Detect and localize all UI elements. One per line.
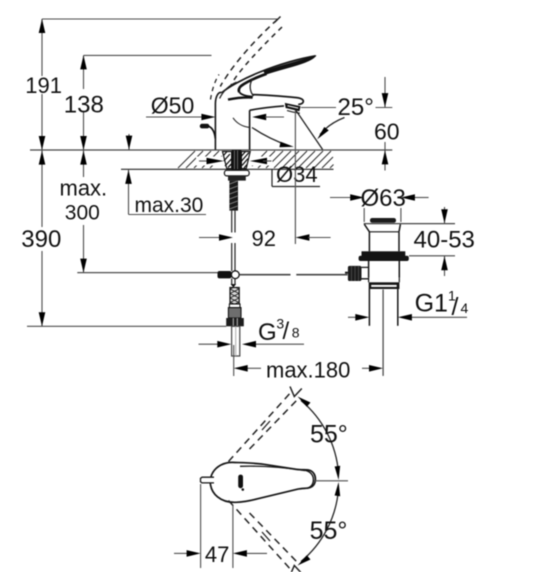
threaded stud — [229, 181, 238, 211]
Ø34 arrows at deck hole — [196, 157, 273, 166]
svg-text:Ø34: Ø34 — [276, 162, 318, 187]
hose nut body — [228, 308, 241, 318]
svg-text:4: 4 — [461, 300, 469, 316]
40-53 dimension — [444, 207, 446, 276]
svg-text:G1: G1 — [415, 290, 448, 318]
handle top inner line — [240, 466, 305, 470]
waste side knob — [348, 266, 362, 281]
svg-text:Ø63: Ø63 — [361, 185, 406, 212]
supply rod below faucet — [232, 211, 235, 284]
dimension ref line top (191 height) — [42, 18, 278, 20]
flange under deck — [224, 170, 249, 176]
svg-text:390: 390 — [21, 226, 61, 253]
hose collar — [229, 304, 240, 308]
handle top view solid — [210, 462, 315, 502]
svg-text:/: / — [452, 293, 459, 321]
deck hatching left — [178, 151, 222, 168]
bottom ref line y=326 — [27, 325, 226, 327]
waste seal ring (two tiers) — [362, 251, 406, 256]
clamping cone left — [223, 152, 232, 169]
svg-text:Ø50: Ø50 — [151, 93, 194, 119]
G1 1/4 left arrow — [348, 316, 357, 318]
Ø34 label leader — [272, 169, 320, 186]
dimension line 191/390 vertical x=42 — [41, 19, 43, 326]
svg-text:max.30: max.30 — [135, 194, 204, 217]
svg-text:8: 8 — [292, 325, 300, 341]
deck top reference line — [30, 149, 392, 151]
25deg right arc arrow — [320, 118, 345, 135]
dimension ref line 138 — [84, 54, 212, 56]
pop-up rod horizontal — [77, 272, 217, 274]
G3/8 label leader — [256, 343, 304, 345]
waste flange top line + 40-53 top ref — [364, 223, 455, 225]
lever dark blade near tip — [264, 56, 316, 75]
svg-text:47: 47 — [205, 542, 229, 567]
arrowheads x=83.5 — [80, 55, 87, 272]
Ø63 dimension — [330, 198, 429, 223]
55deg arc upper — [301, 401, 339, 474]
Ø50 dimension — [146, 116, 203, 118]
60 dimension — [384, 77, 386, 171]
faucet body outline — [215, 92, 249, 149]
pop-up waste: knob cap — [370, 218, 396, 223]
waste lower band — [369, 282, 400, 289]
dimension line 138/max300 vertical x=83.5 — [83, 55, 85, 272]
svg-text:40-53: 40-53 — [414, 226, 475, 253]
hose hex nut — [226, 318, 244, 326]
55deg arc lower — [301, 489, 339, 562]
center line bottom view — [314, 480, 348, 482]
G1 1/4 label leader — [411, 316, 467, 318]
waste neck — [364, 224, 400, 251]
svg-text:191: 191 — [25, 73, 62, 98]
dashed lever rotated up — [229, 391, 293, 462]
waste pipe section — [369, 289, 397, 326]
92 dimension — [199, 237, 219, 239]
40-53 bottom ref line — [409, 255, 455, 257]
deck hatching right — [252, 151, 334, 168]
body interior contour — [233, 118, 249, 128]
svg-text:G: G — [258, 319, 277, 346]
svg-text:55°: 55° — [310, 420, 348, 448]
25deg horizontal line — [301, 107, 336, 109]
faucet mounting shank in deck — [223, 150, 251, 211]
max180 dimension — [234, 345, 370, 376]
lever underside — [239, 74, 267, 92]
clamping cone right — [241, 152, 250, 169]
dashed raised lever edge B — [231, 27, 282, 86]
handle dark slot — [238, 475, 243, 489]
G3/8 left arrow — [199, 343, 219, 345]
deck bottom line — [121, 168, 334, 170]
lever neck inner line — [250, 79, 253, 96]
handle tip inner arc — [304, 470, 314, 488]
side tab hook on body left — [200, 124, 210, 129]
dashed lever rotated down — [229, 501, 293, 572]
47 dimension — [174, 484, 267, 568]
svg-text:300: 300 — [65, 201, 100, 224]
waste body — [369, 261, 400, 282]
lever hook to body — [239, 92, 253, 97]
svg-text:138: 138 — [64, 91, 104, 118]
svg-text:max.: max. — [60, 176, 108, 201]
rod coupling — [218, 271, 232, 278]
braided hose — [226, 288, 244, 357]
dashed lever down tip mark — [290, 566, 302, 572]
spout center reference line — [294, 110, 296, 244]
rod lower tip — [231, 284, 237, 288]
dome inner curve — [220, 82, 237, 98]
svg-text:25°: 25° — [338, 94, 374, 121]
body top shadow line — [228, 97, 253, 99]
svg-text:/: / — [283, 318, 290, 345]
svg-text:92: 92 — [252, 226, 276, 251]
aerator — [285, 103, 301, 111]
max.30 dimension — [129, 134, 207, 215]
handle left tab — [201, 477, 215, 483]
spout bottom edge — [250, 106, 284, 110]
hose tail — [232, 326, 240, 356]
waste center line — [382, 290, 384, 376]
nut under flange — [228, 176, 246, 181]
svg-text:55°: 55° — [310, 517, 348, 545]
dashed raised lever edge A — [220, 20, 277, 87]
dashed lever up tip mark — [290, 387, 302, 397]
dashed handle tip tick — [275, 17, 281, 23]
dashed motion arc left of dome — [211, 75, 220, 100]
svg-text:60: 60 — [374, 119, 400, 145]
25deg left arc arrow — [252, 128, 290, 147]
svg-text:max.180: max.180 — [266, 357, 350, 382]
spout top edge — [253, 95, 304, 105]
lever top edge — [222, 56, 316, 93]
25deg angled ray — [296, 111, 323, 150]
arrowheads x=42 — [39, 19, 46, 326]
